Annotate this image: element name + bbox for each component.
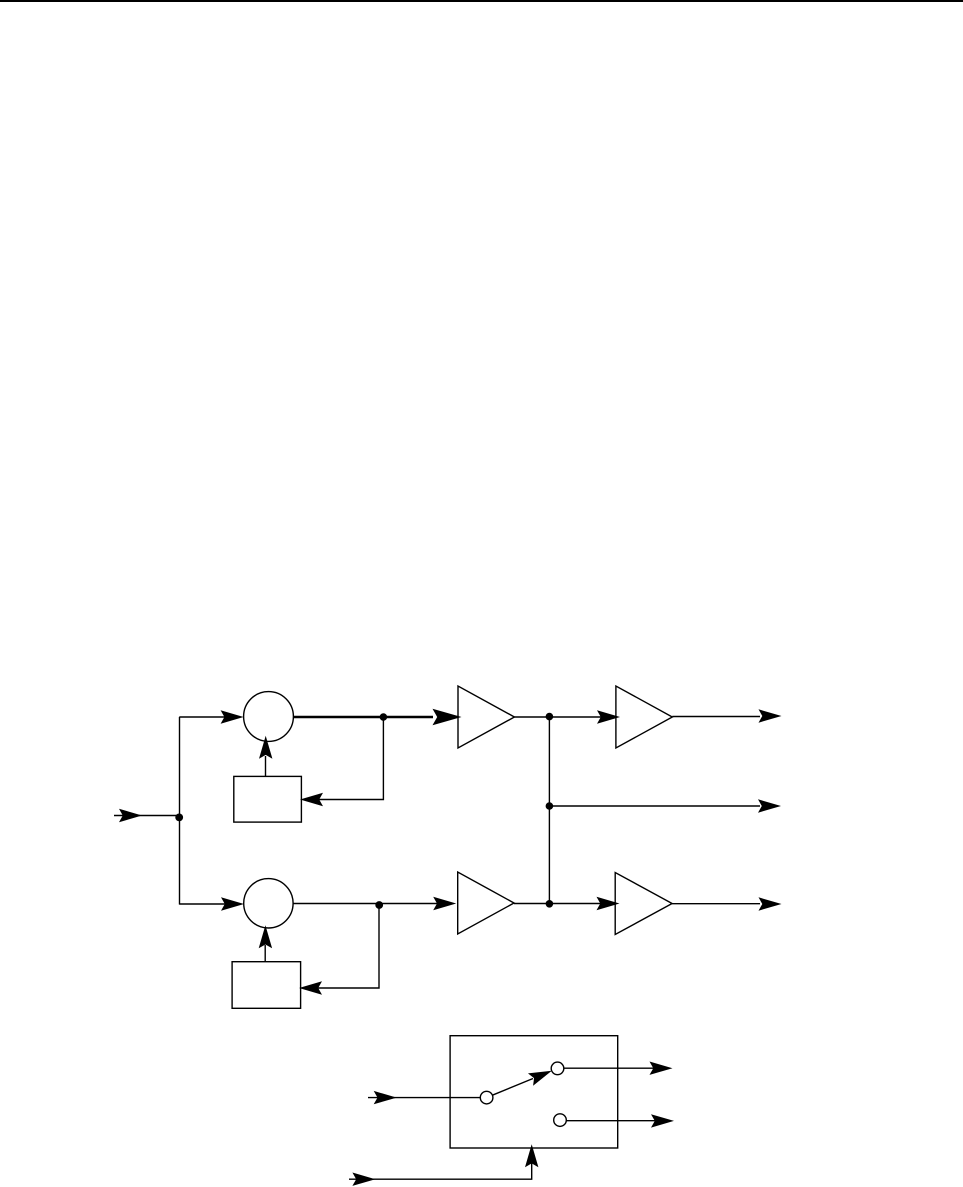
wire: lower feedback: [307, 904, 379, 988]
divider N1 (upper rectangle): [234, 776, 302, 822]
buffer B1 (upper first triangle): [458, 686, 514, 748]
wire: switch input: [368, 1097, 480, 1099]
multiplier M2 (lower circle): [244, 879, 293, 928]
multiplier M1 (upper circle): [244, 692, 294, 742]
wire: trunk to lower multiplier: [179, 903, 240, 905]
arrowhead output 1: [759, 709, 782, 722]
divider N2 (lower rectangle): [232, 962, 301, 1009]
wire: output 1: [672, 716, 760, 718]
buffer B4 (lower second triangle): [615, 873, 672, 935]
switch S1 enclosure box: [450, 1036, 618, 1148]
buffer B2 (upper second triangle): [616, 686, 672, 748]
arrowhead into lower multiplier: [221, 897, 244, 910]
wire: output 3: [672, 903, 760, 905]
arrowhead switch output 1: [650, 1062, 673, 1075]
switch arm: [492, 1079, 533, 1096]
arrowhead on main input: [119, 809, 142, 822]
arrowhead switch control start: [352, 1173, 375, 1186]
arrowhead output 2: [758, 799, 781, 812]
wire: input trunk vertical: [179, 717, 181, 905]
node: middle output junction: [546, 802, 554, 810]
switch pole contact: [480, 1091, 493, 1104]
wire: upper feedback: [308, 717, 383, 800]
wire: switch control: [349, 1150, 532, 1179]
node: lower distribution junction: [546, 900, 554, 908]
wire: N2 to M2: [264, 945, 266, 962]
arrowhead switch arm: [528, 1065, 554, 1086]
wire: to buffer B4: [549, 903, 601, 905]
arrowhead into divider N1: [300, 793, 323, 806]
arrowhead switch control into box: [525, 1144, 538, 1167]
arrowhead N2 to M2: [259, 925, 272, 948]
wire: to buffer B2: [549, 716, 601, 718]
arrowhead output 3: [759, 897, 782, 910]
arrowhead (large) into buffer B1: [433, 709, 462, 725]
arrowhead switch input: [374, 1091, 397, 1104]
arrowhead into buffer B2: [597, 710, 620, 723]
arrowhead into divider N2: [299, 981, 322, 994]
arrowhead into upper multiplier: [221, 710, 244, 723]
wire: switch output 1: [564, 1067, 665, 1069]
wire: B3 to distribution node: [514, 903, 549, 905]
top border bar: [0, 0, 963, 2]
switch throw contact 1: [551, 1062, 564, 1075]
wire: M2 output: [293, 903, 437, 905]
wire: B1 to distribution node: [514, 716, 549, 718]
arrowhead into buffer B3: [433, 897, 456, 910]
node: lower feedback junction: [375, 901, 383, 909]
buffer B3 (lower first triangle): [458, 872, 514, 934]
wire: M1 output (thick): [293, 716, 433, 719]
arrowhead N1 to M1: [259, 736, 272, 759]
switch throw contact 2: [554, 1114, 567, 1127]
wire: trunk to upper multiplier: [179, 716, 240, 718]
arrowhead switch output 2: [651, 1114, 674, 1127]
node: upper distribution junction: [546, 713, 554, 721]
node: upper feedback junction: [380, 713, 388, 721]
wire: output 2 (middle): [549, 805, 760, 807]
arrowhead into buffer B4: [597, 897, 620, 910]
wire: main input: [114, 815, 180, 817]
node: input junction: [175, 814, 183, 822]
wire: distribution vertical: [548, 717, 550, 904]
wire: N1 to M1: [265, 756, 267, 776]
wire: switch output 2: [566, 1120, 667, 1122]
